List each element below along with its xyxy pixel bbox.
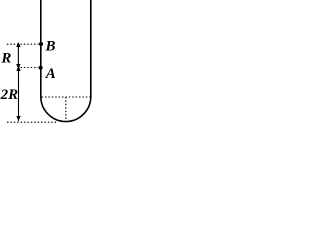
tube left wall [40,0,42,97]
dotted leader at B level [7,43,39,45]
dimension R bottom arrowhead [16,64,20,69]
tube bottom arc [41,97,91,122]
dotted radius line [65,97,67,121]
dotted leader at A level [21,67,39,69]
dimension 2R top arrowhead [16,66,20,72]
svg-text:B: B [45,39,56,55]
dimension R top arrowhead [16,42,20,47]
point B dot [39,42,43,46]
physics diagram: vertical tube with hemispherical bottom, points A and B, dimensions R and 2R [0,0,97,125]
svg-text:A: A [45,66,56,82]
tube right wall [90,0,92,97]
svg-text:R: R [0,50,11,66]
dotted diameter line [42,96,90,98]
dimension R line [17,44,19,67]
dimension 2R bottom arrowhead [16,116,20,121]
dimension 2R line [18,67,20,121]
point A dot [39,66,43,70]
bottom dotted base line [7,121,58,123]
svg-text:2R: 2R [0,87,18,103]
